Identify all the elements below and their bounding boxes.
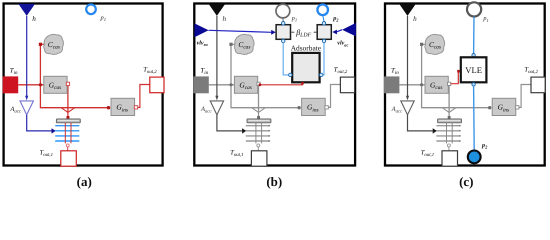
- wire collector vertical: [448, 85, 450, 112]
- wire p2 ring to block: [323, 15, 324, 21]
- temperature source T_in (b): [193, 76, 209, 93]
- wire A_acc to evaporator: [217, 115, 242, 131]
- wire vlv_ea to p1 block: [209, 30, 272, 32]
- conductor G_cas (a): [44, 76, 67, 93]
- svg-text:(c): (c): [459, 174, 473, 189]
- svg-text:Tin: Tin: [10, 67, 18, 76]
- wire h to A_acc: [407, 16, 409, 97]
- evaporator tubes: [65, 123, 71, 144]
- port adsorbate left: [289, 73, 292, 76]
- wire C_cas down to bus and bus to G_ins: [40, 44, 108, 107]
- pressure node p1 block (b): [276, 25, 290, 40]
- arrowhead into evaporator: [242, 128, 246, 133]
- port block1 top: [282, 22, 285, 25]
- wire collector diagonals: [252, 108, 265, 113]
- port adsorbate right: [320, 73, 323, 76]
- svg-text:VLE: VLE: [465, 65, 482, 75]
- temperature source T_in (c): [384, 76, 400, 93]
- wire G_cas to adsorbate (red): [260, 83, 302, 85]
- port G_ins right: [516, 106, 519, 109]
- svg-text:p1: p1: [482, 15, 488, 23]
- node adsorbate bottom dot: [301, 82, 304, 85]
- panel (b) frame: [194, 4, 355, 166]
- gain A_acc (b): [210, 101, 223, 115]
- wire collector vertical: [258, 85, 260, 112]
- conductor G_cas (c): [425, 76, 448, 93]
- evaporator tubes: [447, 123, 453, 144]
- heat capacitor C_cas (a): [44, 34, 64, 54]
- wire C_cas down to bus and bus to G_ins: [231, 44, 299, 107]
- svg-text:(b): (b): [266, 174, 282, 189]
- node G_ins left dot: [107, 106, 110, 109]
- port G_ins right: [134, 106, 137, 109]
- gain A_acc (c): [401, 101, 414, 115]
- wire vlv_ac to p2 block: [337, 30, 343, 32]
- VLE block (c): [461, 57, 487, 82]
- port evaporator bottom: [447, 144, 450, 147]
- panel (a) frame: [4, 4, 163, 166]
- arrowhead into A_acc: [215, 96, 218, 101]
- svg-text:Tout,2: Tout,2: [334, 67, 348, 76]
- panel (c) frame: [385, 4, 545, 166]
- wire A_acc to evaporator: [27, 115, 52, 131]
- wire collector to cap: [448, 112, 450, 119]
- temperature sensor T_out,1 (a): [61, 151, 77, 166]
- source h (b): [209, 4, 226, 16]
- svg-text:Tin: Tin: [200, 67, 208, 76]
- heat capacitor C_cas (b): [234, 34, 254, 54]
- svg-text:vlvac: vlvac: [337, 40, 348, 48]
- svg-text:Tout,2: Tout,2: [524, 67, 538, 76]
- adsorbate block (b): [292, 53, 319, 82]
- port VLE bottom: [472, 83, 475, 86]
- evaporator cap (b): [247, 119, 271, 123]
- port block2 bottom: [322, 39, 325, 42]
- wire C_cas stub: [231, 43, 236, 45]
- gain A_acc (a): [20, 101, 33, 115]
- node G_cas right junction (b): [259, 83, 262, 86]
- wire p1 to VLE: [473, 17, 475, 54]
- wire h to A_acc: [26, 16, 28, 97]
- pressure port p2 (c): [468, 151, 481, 164]
- svg-text:h: h: [413, 15, 417, 23]
- wire C_cas stub: [40, 43, 45, 45]
- temperature source T_in (a): [3, 76, 19, 93]
- wire C_cas stub: [422, 43, 427, 45]
- temperature sensor T_out,2 (c): [531, 77, 545, 93]
- heat capacitor C_cas (c): [425, 34, 445, 54]
- temperature sensor T_out,1 (b): [251, 151, 267, 166]
- svg-text:βLDF: βLDF: [295, 28, 311, 39]
- arrowhead into p1 block: [271, 30, 276, 35]
- wire block1 to adsorbate: [283, 43, 289, 75]
- port evaporator bottom: [257, 144, 260, 147]
- svg-text:Tout,1: Tout,1: [230, 150, 243, 159]
- svg-text:h: h: [223, 15, 227, 23]
- wire T_in to node: [209, 84, 235, 86]
- node junction T_in/C_cas: [229, 83, 232, 86]
- wire collector to cap: [67, 112, 69, 119]
- svg-text:(a): (a): [77, 174, 92, 189]
- node G_ins left dot: [488, 106, 491, 109]
- port G_ins right: [325, 106, 328, 109]
- pressure port p2 ring (b): [317, 5, 328, 16]
- svg-text:Tin: Tin: [391, 67, 399, 76]
- wire A_acc to evaporator: [408, 115, 433, 131]
- arrowhead into evaporator: [433, 128, 437, 133]
- svg-text:Tout,1: Tout,1: [40, 150, 53, 159]
- svg-text:p2: p2: [332, 15, 339, 23]
- svg-text:Aacc: Aacc: [391, 106, 404, 115]
- wire C_cas down to bus and bus to G_ins: [422, 44, 490, 107]
- node C_cas port dot: [420, 43, 423, 46]
- wire VLE to p2: [473, 86, 476, 150]
- svg-text:Aacc: Aacc: [9, 106, 22, 115]
- svg-text:Tout,1: Tout,1: [421, 150, 434, 159]
- wire G_ins to T_out,2: [328, 85, 340, 108]
- node junction T_in/C_cas: [39, 83, 42, 86]
- wire h to A_acc: [216, 16, 218, 97]
- svg-text:Tout,2: Tout,2: [143, 67, 157, 76]
- node junction T_in/C_cas: [420, 83, 423, 86]
- arrowhead into A_acc: [406, 96, 409, 101]
- wire collector vertical: [67, 85, 69, 112]
- port G_cas right: [448, 82, 451, 85]
- pressure port p1 ring (b): [276, 4, 290, 18]
- pressure port p1 (a): [86, 5, 96, 15]
- node C_cas port dot: [229, 43, 232, 46]
- wire p1 ring to block: [282, 18, 284, 22]
- port evaporator bottom: [66, 144, 69, 147]
- arrowhead into evaporator: [52, 128, 56, 133]
- evaporator cap (a): [56, 119, 80, 123]
- node VLE left dot: [457, 70, 460, 73]
- valve source vlv_ac (b): [342, 23, 356, 37]
- wire G_cas to VLE (red): [451, 71, 459, 84]
- conductor G_ins (a): [111, 98, 135, 115]
- port block2 top: [322, 22, 325, 25]
- svg-text:p1: p1: [291, 15, 297, 23]
- source h (a): [18, 4, 35, 16]
- svg-text:p1: p1: [100, 15, 107, 23]
- temperature sensor T_out,2 (a): [150, 77, 164, 93]
- wire collector to cap: [258, 112, 260, 119]
- node collector dot: [67, 116, 70, 119]
- temperature sensor T_out,2 (b): [340, 77, 354, 93]
- wire collector diagonals: [442, 108, 456, 113]
- arrowhead into p2 block: [332, 30, 337, 35]
- port block1 bottom: [282, 39, 285, 42]
- wire T_in to node: [18, 84, 44, 86]
- svg-text:vlvea: vlvea: [197, 40, 209, 48]
- svg-text:Aacc: Aacc: [200, 106, 213, 115]
- wire G_ins to T_out,2: [138, 85, 150, 108]
- source h (c): [399, 4, 416, 16]
- port VLE top: [472, 54, 475, 57]
- temperature sensor T_out,1 (c): [442, 151, 458, 166]
- node G_ins left dot: [297, 106, 300, 109]
- coupling beta_LDF dashes: [292, 31, 317, 33]
- conductor G_ins (c): [492, 98, 516, 115]
- node C_cas port dot: [39, 43, 42, 46]
- port G_cas right: [257, 82, 260, 85]
- wire collector diagonals: [61, 108, 74, 113]
- pressure node p2 block (b): [317, 25, 331, 40]
- arrowhead into A_acc: [25, 96, 28, 101]
- evaporator fins: [246, 125, 271, 142]
- valve source vlv_ea (b): [195, 23, 209, 37]
- node collector dot: [257, 116, 260, 119]
- wire block2 to adsorbate: [323, 43, 324, 75]
- node collector dot: [448, 116, 451, 119]
- svg-text:h: h: [32, 15, 36, 23]
- port G_cas right: [66, 82, 69, 85]
- svg-text:p2: p2: [481, 142, 488, 150]
- wire T_in to node: [399, 84, 425, 86]
- evaporator fins: [436, 125, 461, 142]
- conductor G_ins (b): [302, 98, 326, 115]
- evaporator tubes: [256, 123, 262, 144]
- evaporator fins: [55, 126, 79, 141]
- pressure port p1 ring (c): [467, 2, 481, 16]
- wire G_ins to T_out,2: [519, 85, 531, 108]
- evaporator cap (c): [438, 119, 462, 123]
- svg-text:Adsorbate: Adsorbate: [291, 44, 322, 53]
- conductor G_cas (b): [234, 76, 257, 93]
